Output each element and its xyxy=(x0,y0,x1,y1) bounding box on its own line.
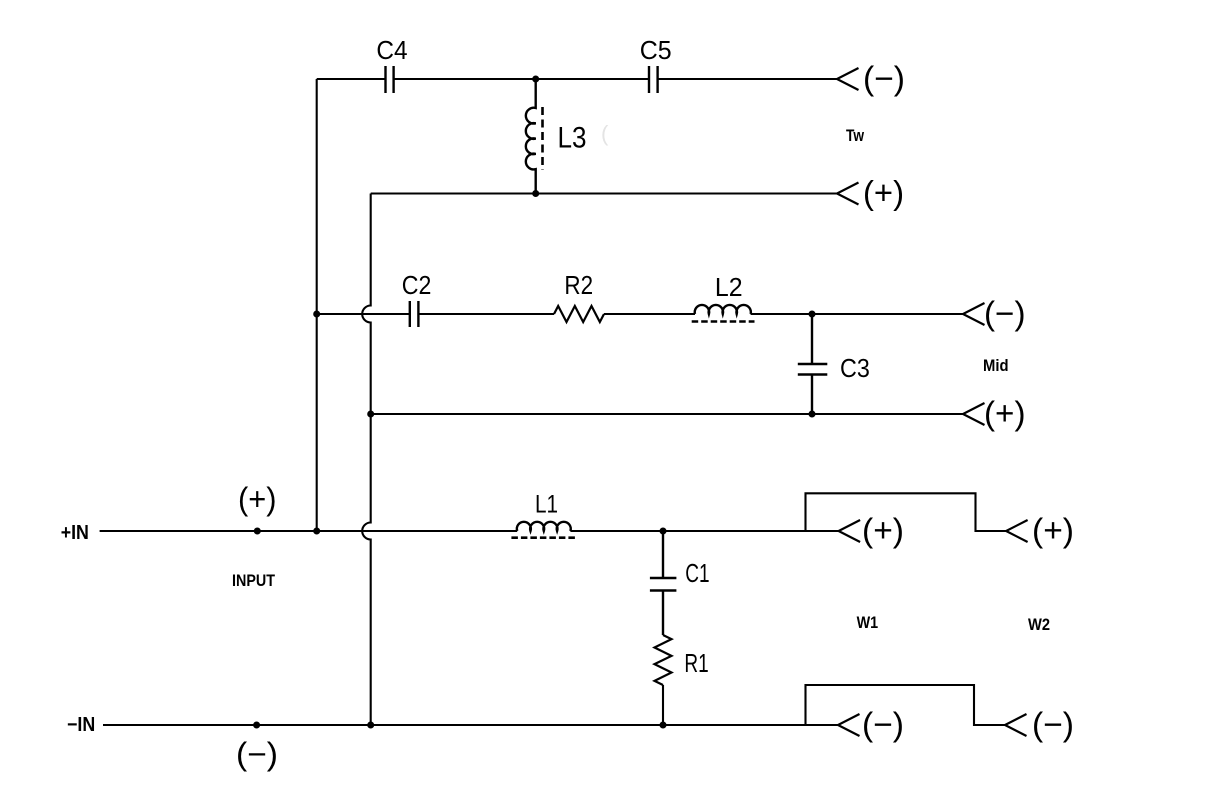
svg-text:(−): (−) xyxy=(984,295,1026,332)
capacitor C2 xyxy=(410,301,419,327)
svg-text:(−): (−) xyxy=(1032,706,1074,743)
node dot Mid(+) rail start xyxy=(367,411,374,418)
node dot +IN junction 1 xyxy=(254,528,261,535)
inductor L3 xyxy=(526,79,536,194)
terminal arrow Mid(+) xyxy=(963,403,985,425)
capacitor C1 xyxy=(650,531,677,635)
terminal arrow Tw(+) xyxy=(837,183,859,205)
svg-text:R1: R1 xyxy=(684,648,708,678)
svg-text:INPUT: INPUT xyxy=(232,571,276,590)
node dot L3 bottom xyxy=(532,190,539,197)
wire Mid(+) rail xyxy=(371,413,963,415)
terminal arrow W1(-) xyxy=(838,714,860,736)
node dot C1 top xyxy=(660,528,667,535)
wire Tw(-) rail right segment (C5 to terminal) xyxy=(658,78,837,80)
terminal arrow W2(-) xyxy=(1005,714,1027,736)
node dot +IN junction left bus xyxy=(313,528,320,535)
wire Tw(-) rail middle segment (C4 to C5) xyxy=(394,78,649,80)
wire left vertical bus (from C4 rail corner down to +IN) xyxy=(316,79,318,531)
svg-text:(−): (−) xyxy=(862,706,904,743)
wire second vertical bus with hops (Tw+ corner down to -IN) xyxy=(362,194,371,726)
svg-text:(: ( xyxy=(601,121,609,146)
svg-text:Tw: Tw xyxy=(846,126,865,145)
svg-text:C1: C1 xyxy=(685,558,709,588)
inductor L3 core dashed line xyxy=(541,107,544,170)
svg-text:(+): (+) xyxy=(862,512,904,549)
inductor L1 xyxy=(517,522,571,531)
node dot Mid(-) rail start xyxy=(313,311,320,318)
wire Mid(-) rail segment (C2 to R2) xyxy=(418,313,554,315)
resistor R1 xyxy=(655,635,672,685)
terminal arrow Tw(-) xyxy=(837,68,859,90)
node dot -IN junction second bus xyxy=(367,722,374,729)
svg-text:+IN: +IN xyxy=(61,522,89,544)
wire Tw(+) rail xyxy=(371,192,837,194)
node dot C3 bottom xyxy=(809,411,816,418)
node dot C3 top xyxy=(809,311,816,318)
wire W2(+) bracket xyxy=(806,493,1007,531)
node dot -IN junction 1 xyxy=(253,722,260,729)
svg-text:(+): (+) xyxy=(238,481,277,517)
capacitor C3 xyxy=(798,314,828,414)
wire Mid(-) rail segment (bus to C2) xyxy=(317,313,410,315)
svg-text:(+): (+) xyxy=(984,395,1026,432)
capacitor C4 xyxy=(386,66,394,93)
wire Tw(-) rail left segment (corner of left bus to C4) xyxy=(317,78,386,80)
wire Mid(-) rail segment (L2 to terminal) xyxy=(751,313,963,315)
wire +IN rail segment (label to L1) xyxy=(100,530,518,532)
svg-text:L1: L1 xyxy=(535,491,558,519)
node dot L3 top xyxy=(532,76,539,83)
svg-text:C3: C3 xyxy=(840,353,870,383)
svg-text:W1: W1 xyxy=(857,613,879,632)
svg-text:L2: L2 xyxy=(715,272,743,302)
inductor L2 xyxy=(695,305,751,314)
wire +IN rail segment (L1 to W1+ terminal) xyxy=(570,530,838,532)
svg-text:C5: C5 xyxy=(640,35,672,65)
svg-text:(−): (−) xyxy=(236,736,278,772)
terminal arrow Mid(-) xyxy=(963,303,985,325)
svg-text:C2: C2 xyxy=(402,270,432,300)
resistor R2 xyxy=(554,306,604,322)
svg-text:R2: R2 xyxy=(564,270,593,300)
terminal arrow W1(+) xyxy=(839,520,861,542)
terminal arrow W2(+) xyxy=(1006,520,1028,542)
inductor L2 core dashed line xyxy=(692,320,755,323)
svg-text:L3: L3 xyxy=(558,122,587,155)
inductor L1 core dashed line xyxy=(511,536,576,539)
svg-text:C4: C4 xyxy=(376,35,407,65)
svg-text:(+): (+) xyxy=(1032,512,1074,549)
svg-text:−IN: −IN xyxy=(67,714,95,736)
svg-text:(−): (−) xyxy=(863,60,905,97)
wire -IN rail xyxy=(103,724,838,726)
svg-text:(+): (+) xyxy=(863,174,904,211)
capacitor C5 xyxy=(649,66,658,93)
node dot R1 bottom xyxy=(660,722,667,729)
svg-text:W2: W2 xyxy=(1028,615,1050,634)
wire R1 bottom lead xyxy=(662,685,664,725)
svg-text:Mid: Mid xyxy=(983,356,1009,375)
wire Mid(-) rail segment (R2 to L2) xyxy=(604,313,695,315)
wire W2(-) bracket xyxy=(806,685,1006,725)
